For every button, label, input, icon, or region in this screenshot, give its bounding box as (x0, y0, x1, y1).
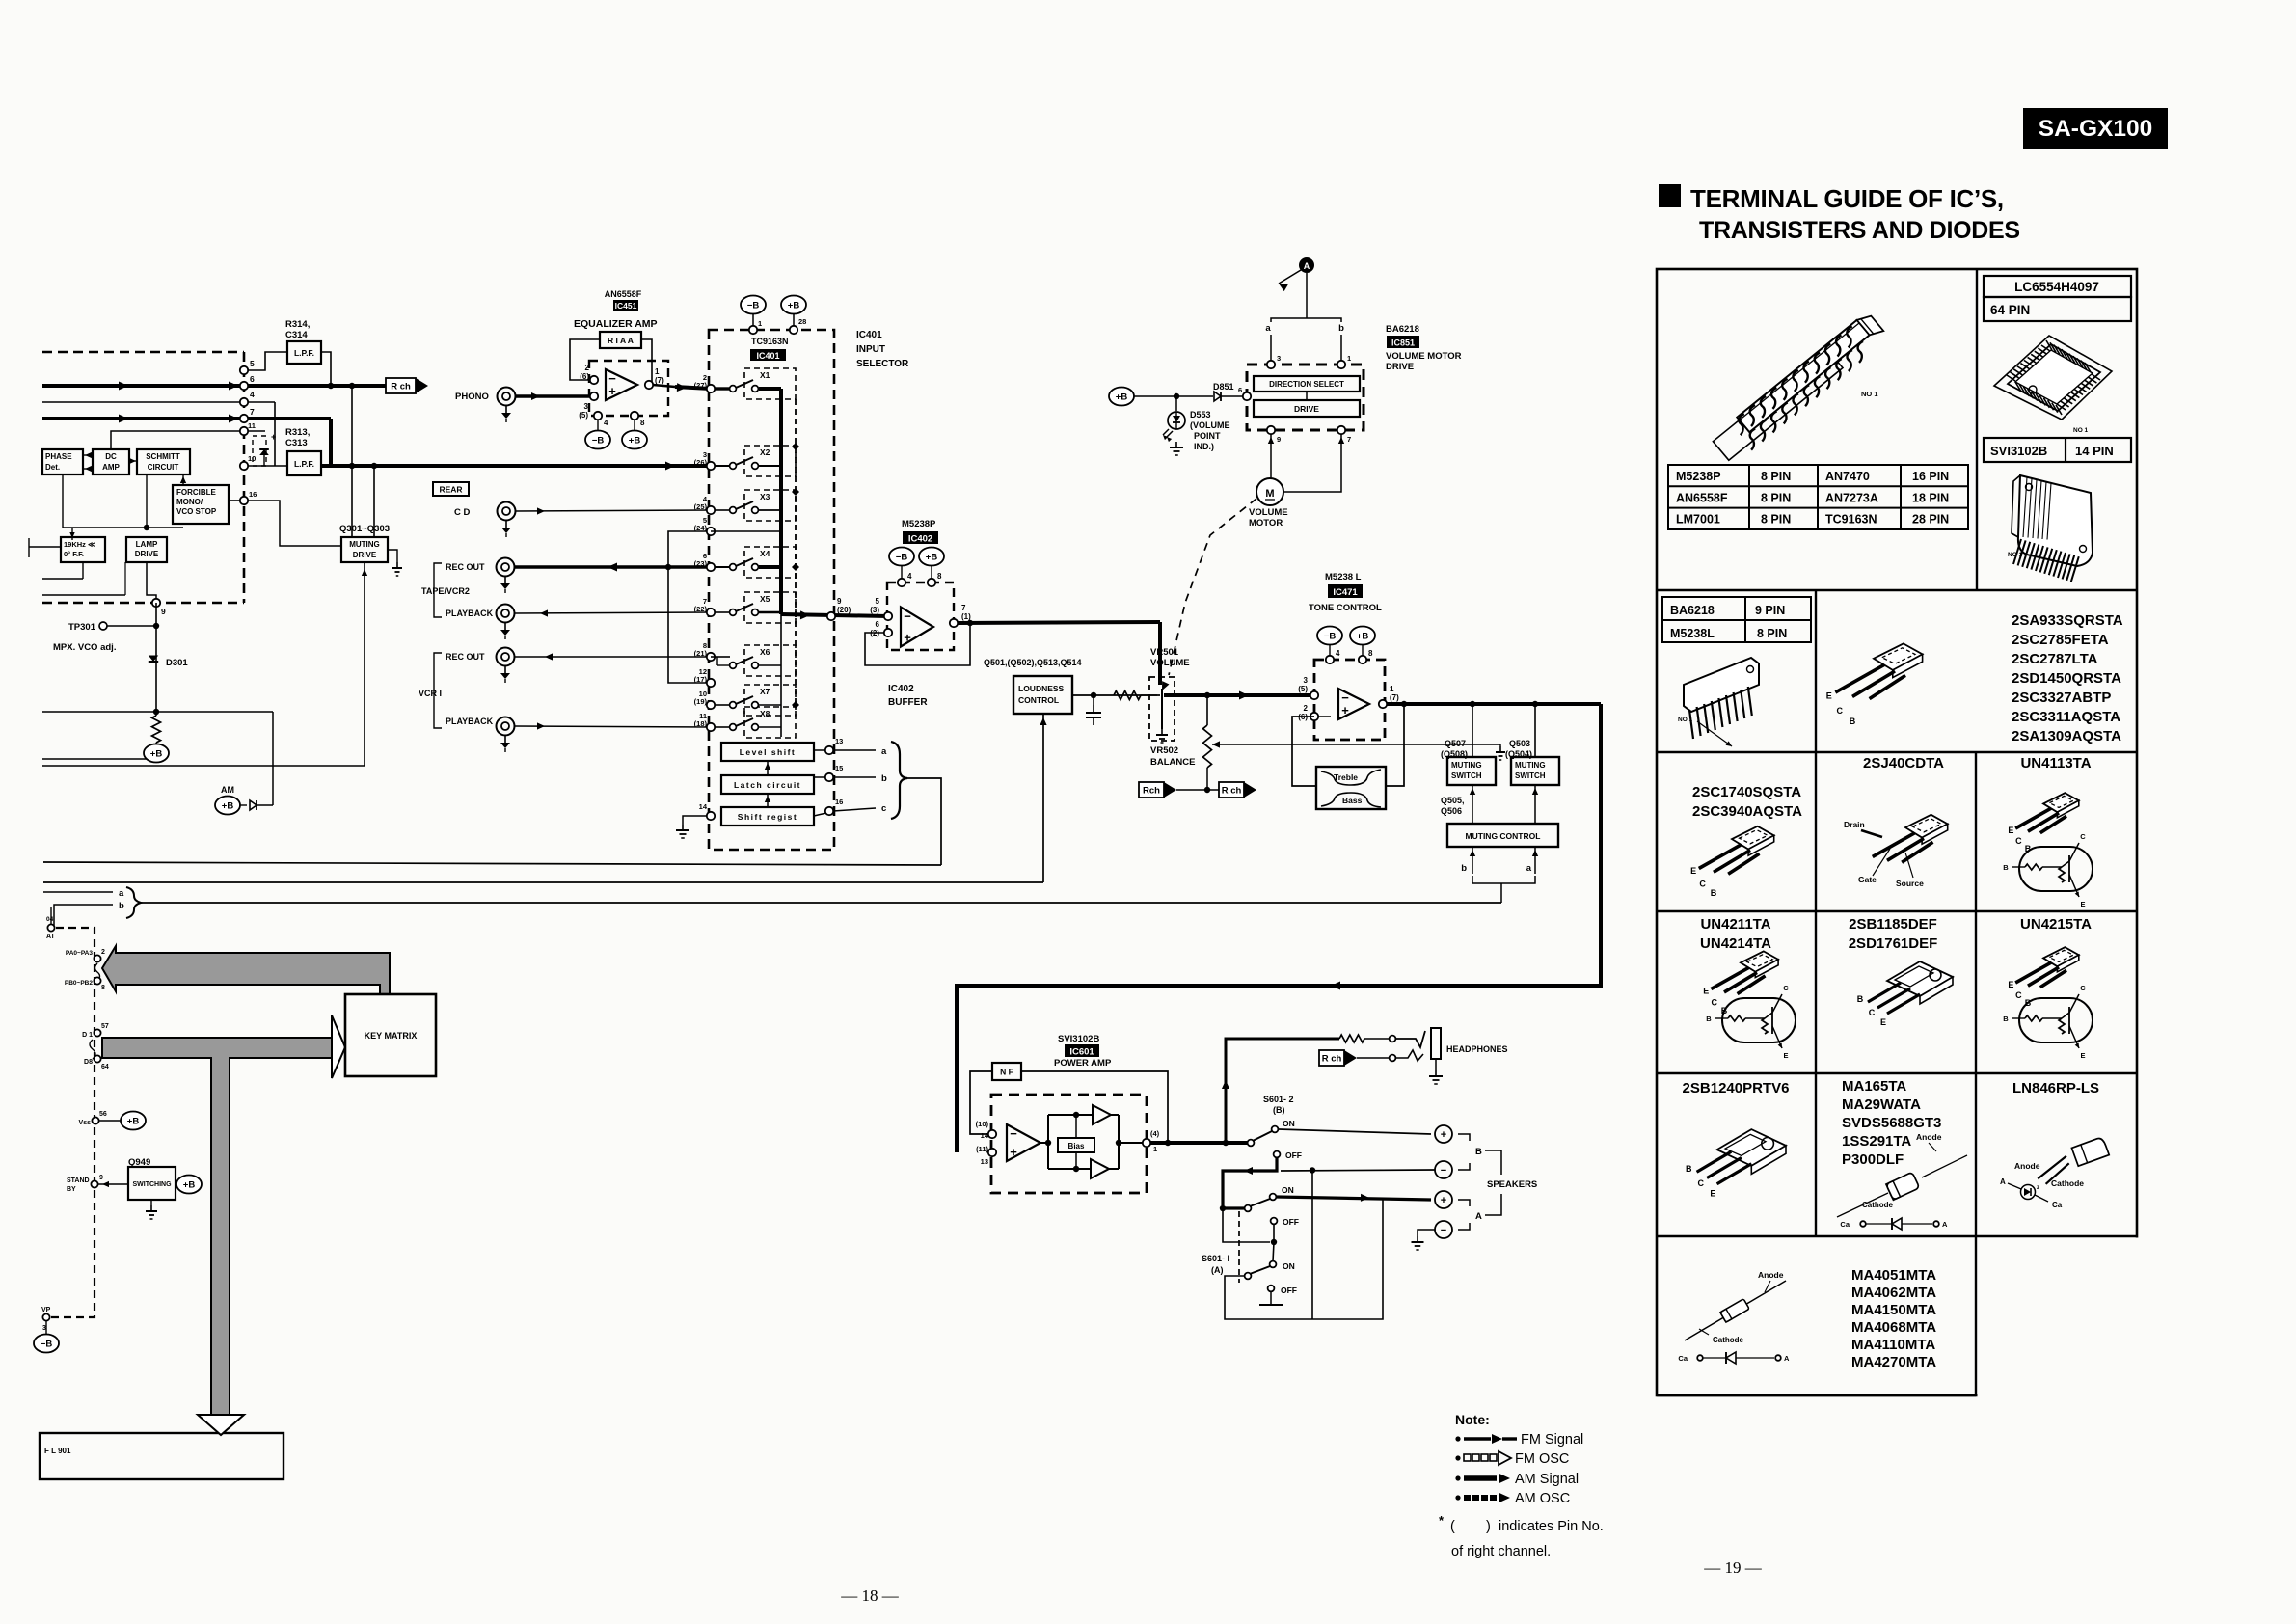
wires under phase det (63, 474, 183, 528)
svg-text:Bass: Bass (1342, 796, 1363, 805)
contact hp tip (1390, 1036, 1396, 1042)
svg-text:C314: C314 (285, 330, 308, 340)
svg-text:6: 6 (250, 374, 255, 384)
svg-text:AT: AT (46, 934, 56, 940)
wire VP to -B (45, 1321, 47, 1335)
resistor R vco (155, 712, 157, 716)
grid col line 2049 (1975, 752, 1977, 1236)
IC402 dashed box (887, 582, 954, 650)
ground D553 (1175, 442, 1177, 447)
svg-text:IC851: IC851 (1391, 338, 1415, 348)
block KEY MATRIX (345, 994, 436, 1076)
svg-text:(: ( (1450, 1519, 1455, 1534)
svg-text:E: E (1703, 987, 1709, 996)
svg-text:2: 2 (585, 364, 590, 372)
svg-text:AN7470: AN7470 (1825, 470, 1870, 483)
flag Rch headphones (1319, 1050, 1344, 1066)
headphone jack (1396, 1031, 1425, 1047)
svg-text:C: C (1837, 706, 1844, 716)
transistor package 2SB1240 (1717, 1129, 1786, 1166)
svg-text:13: 13 (981, 1157, 988, 1166)
svg-text:D851: D851 (1213, 382, 1234, 392)
svg-text:LOUDNESS: LOUDNESS (1018, 684, 1065, 693)
ba6218 pin table (1662, 597, 1811, 642)
svg-text:(3): (3) (870, 606, 879, 614)
grey arrow keys to D (102, 1038, 332, 1417)
svg-text:Source: Source (1896, 879, 1924, 888)
wire rch to hp ring (1357, 1057, 1389, 1059)
grid col right below 1447 erase (1978, 1238, 2141, 1399)
wire balance wiper to ground (1212, 744, 1408, 745)
svg-text:KEY MATRIX: KEY MATRIX (365, 1031, 418, 1041)
svg-text:10: 10 (248, 454, 256, 463)
varactor diode D302 (253, 436, 266, 466)
svg-text:LAMP: LAMP (136, 540, 158, 549)
ground pin14 (683, 816, 707, 825)
wire pin7 to motor (1283, 434, 1341, 492)
power +B vss (121, 1112, 146, 1130)
svg-text:1: 1 (758, 319, 762, 328)
wires muting control to switches (1472, 785, 1473, 824)
svg-text:+B: +B (926, 553, 938, 563)
block FL901 (40, 1433, 284, 1479)
svg-text:MOTOR: MOTOR (1249, 518, 1283, 528)
svg-text:(6): (6) (580, 372, 589, 381)
bracket speakers A (1458, 1200, 1470, 1206)
grid col line 1883 (1815, 590, 1817, 1236)
arrow from A (1279, 270, 1301, 284)
svg-text:Anode: Anode (1916, 1132, 1942, 1142)
svg-text:8: 8 (640, 419, 645, 427)
svg-text:15: 15 (835, 764, 843, 772)
wire s601-1 box (1225, 1200, 1383, 1319)
node pin10 14 (988, 1130, 996, 1138)
svg-text:AM: AM (221, 785, 234, 795)
svg-text:TAPE/VCR2: TAPE/VCR2 (421, 586, 470, 596)
svg-text:+: + (1341, 703, 1349, 717)
block MUTING SWITCH 1 (1447, 757, 1496, 785)
svg-text:indicates Pin No.: indicates Pin No. (1499, 1519, 1604, 1534)
ground muting drive (388, 550, 397, 562)
connector A circle (1299, 257, 1314, 273)
svg-text:D553: D553 (1190, 410, 1211, 420)
svg-text:L.P.F.: L.P.F. (294, 459, 314, 469)
IC401 dashed box (709, 330, 834, 850)
svg-text:7: 7 (961, 604, 966, 612)
power +B motor (1109, 388, 1134, 406)
wire NF left loop (970, 1071, 992, 1134)
selector output bus (thick) (779, 389, 783, 614)
svg-text:+: + (1441, 1195, 1446, 1206)
svg-text:4: 4 (250, 390, 255, 399)
wire LPF R314 output to Rch line (321, 352, 331, 386)
wire lamp drive to node 9 (147, 562, 156, 603)
wire muting drive to bottom rail (42, 562, 365, 766)
svg-text:04: 04 (46, 916, 54, 923)
svg-text:R ch: R ch (391, 382, 411, 392)
svg-text:HEADPHONES: HEADPHONES (1446, 1044, 1508, 1054)
ground switching (150, 1200, 152, 1205)
switch X3 (730, 507, 737, 514)
wire playback tape (515, 612, 711, 613)
svg-text:SVI3102B: SVI3102B (1990, 444, 2047, 458)
svg-text:(20): (20) (837, 606, 851, 614)
svg-text:Ca: Ca (2052, 1201, 2063, 1209)
node pin 10 (240, 462, 248, 470)
op-amp IC451 (606, 369, 637, 400)
speaker terminal B minus (1435, 1161, 1452, 1178)
block LOUDNESS CONTROL (1013, 676, 1072, 714)
svg-text:N F: N F (1000, 1068, 1013, 1077)
transistor package UN4215 (2043, 947, 2079, 966)
svg-text:X4: X4 (760, 549, 770, 558)
node pin16 out (825, 807, 833, 815)
svg-text:Level shift: Level shift (740, 747, 797, 757)
svg-text:+B: +B (222, 801, 234, 812)
svg-text:— 19 —: — 19 — (1703, 1558, 1763, 1577)
svg-text:MA4270MTA: MA4270MTA (1851, 1354, 1936, 1370)
svg-text:+: + (1010, 1145, 1017, 1159)
svg-text:(1): (1) (961, 612, 971, 621)
block Bias (1058, 1138, 1094, 1152)
svg-text:(4): (4) (1150, 1129, 1160, 1138)
node pin 16 (240, 497, 248, 504)
bracket speakers outer (1497, 1150, 1501, 1175)
wire FM signal line pin 6 (thick) (42, 384, 386, 388)
svg-text:UN4211TA: UN4211TA (1700, 916, 1770, 933)
node pin1 top (749, 326, 757, 334)
wire NF right loop (1021, 1071, 1168, 1143)
block LAMP DRIVE (126, 537, 167, 562)
switch A pole (1220, 1205, 1226, 1211)
svg-text:MUTING CONTROL: MUTING CONTROL (1466, 831, 1541, 841)
svg-text:b: b (881, 773, 887, 784)
flag Rch balance right (1219, 782, 1244, 798)
svg-text:−B: −B (896, 553, 908, 563)
svg-text:VR502: VR502 (1150, 745, 1178, 756)
node PB0-PB2 (94, 977, 100, 984)
svg-text:MA4110MTA: MA4110MTA (1851, 1337, 1935, 1353)
svg-text:(27): (27) (694, 381, 708, 390)
svg-text:FM OSC: FM OSC (1515, 1451, 1569, 1467)
sip9 package drawing (1684, 658, 1759, 712)
svg-text:A: A (1784, 1354, 1790, 1363)
ic402 feedback wire (865, 623, 970, 665)
svg-text:E: E (1690, 866, 1696, 876)
LPF R313 C313 box (287, 451, 321, 475)
svg-text:AM OSC: AM OSC (1515, 1491, 1570, 1506)
block Latch circuit (721, 775, 814, 794)
node pin 9 (152, 599, 160, 607)
svg-text:VOLUME: VOLUME (1150, 658, 1190, 668)
svg-text:IC401: IC401 (756, 351, 779, 361)
svg-text:VCO STOP: VCO STOP (176, 507, 217, 516)
svi3102b sip package drawing (2018, 475, 2093, 566)
svg-text:+B: +B (1357, 632, 1369, 642)
svg-text:−: − (1010, 1126, 1017, 1141)
svg-text:TRANSISTERS AND DIODES: TRANSISTERS AND DIODES (1699, 217, 2020, 244)
wire DC AMP to SCHMITT (129, 460, 137, 462)
block MUTING SWITCH 2 (1511, 757, 1559, 785)
svg-text:8 PIN: 8 PIN (1761, 513, 1791, 527)
svg-text:IC601: IC601 (1069, 1047, 1094, 1058)
svg-text:Rch: Rch (1143, 786, 1160, 797)
svg-text:BA6218: BA6218 (1386, 324, 1419, 335)
svg-text:Shift regist: Shift regist (738, 812, 797, 822)
node pin6 ic402 (884, 629, 892, 636)
wire pin 4 (42, 401, 275, 403)
svg-text:Anode: Anode (2014, 1161, 2040, 1171)
jack PLAYBACK vcr1 (497, 717, 515, 736)
svg-text:2SB1185DEF: 2SB1185DEF (1849, 916, 1937, 933)
svg-text:MPX. VCO adj.: MPX. VCO adj. (53, 642, 116, 653)
svg-text:b: b (1461, 863, 1467, 874)
switch X4 (730, 564, 737, 571)
svg-text:E: E (1783, 1051, 1788, 1060)
svg-text:X8: X8 (760, 709, 770, 718)
svg-text:b: b (1338, 323, 1344, 334)
svg-text:+B: +B (1116, 392, 1128, 403)
wire SCHMITT to FORCIBLE (182, 474, 184, 485)
svg-text:c: c (881, 803, 886, 814)
svg-text:MUTING: MUTING (349, 540, 380, 549)
node STANDBY (91, 1180, 97, 1187)
svg-text:STAND: STAND (67, 1177, 90, 1184)
jack REC OUT tape (497, 558, 515, 577)
svg-text:): ) (1486, 1519, 1491, 1534)
svg-text:C: C (2080, 984, 2086, 992)
equivalent circuit UN4211 (1722, 998, 1796, 1042)
node pin3 ic851 (1267, 361, 1275, 368)
svg-text:Cathode: Cathode (1713, 1336, 1744, 1344)
svg-text:(5): (5) (579, 411, 588, 420)
block NF (992, 1063, 1021, 1080)
wire AT to b line (50, 907, 52, 924)
svg-text:B: B (2003, 863, 2009, 872)
wire tone fb left (1292, 717, 1316, 786)
svg-text:+B: +B (127, 1117, 140, 1127)
svg-text:2SC2787LTA: 2SC2787LTA (2012, 651, 2098, 667)
svg-text:Q301~Q303: Q301~Q303 (339, 524, 390, 534)
wires level shift outputs (814, 749, 826, 751)
wire AM feed vertical (272, 712, 274, 805)
svg-text:z: z (2037, 1185, 2039, 1191)
contact S601-1 off lower (1268, 1286, 1275, 1292)
node pin2 (590, 376, 598, 384)
svg-text:TERMINAL GUIDE OF IC’S,: TERMINAL GUIDE OF IC’S, (1690, 184, 2004, 213)
svg-text:S601- 2: S601- 2 (1263, 1095, 1294, 1104)
node Vss (92, 1117, 98, 1123)
wire rch link (1176, 789, 1219, 791)
wire balance branch (1206, 695, 1208, 725)
svg-text:Anode: Anode (1758, 1270, 1784, 1280)
svg-text:BALANCE: BALANCE (1150, 757, 1195, 768)
svg-text:+B: +B (150, 749, 163, 760)
svg-text:ON: ON (1283, 1261, 1295, 1271)
svg-text:E: E (1880, 1017, 1886, 1027)
block PHASE Det (42, 449, 83, 474)
bus line ab to muting (139, 902, 1501, 904)
resistor volume feed (1114, 691, 1141, 700)
svg-text:−B: −B (41, 1340, 53, 1350)
bus line loudness control (43, 881, 1043, 883)
svg-text:LN846RP-LS: LN846RP-LS (2012, 1080, 2099, 1096)
IC601 dashed box (991, 1095, 1147, 1193)
node pin28 top (790, 326, 797, 334)
svg-text:−: − (904, 609, 911, 624)
node pin15 (825, 773, 833, 781)
svg-text:2SC3940AQSTA: 2SC3940AQSTA (1692, 803, 1802, 820)
svg-text:b: b (119, 901, 124, 911)
svg-text:Q507: Q507 (1445, 739, 1466, 748)
svg-text:56: 56 (99, 1111, 107, 1118)
legend AM Signal (1455, 1475, 1460, 1480)
grid row line 780 (1657, 751, 2137, 753)
dashed wire motor to VR501 (1169, 499, 1256, 675)
svg-text:Q501,(Q502),Q513,Q514: Q501,(Q502),Q513,Q514 (984, 658, 1082, 667)
svg-text:DRIVE: DRIVE (1386, 362, 1414, 372)
legend FM OSC (1455, 1455, 1460, 1460)
svg-text:IC471: IC471 (1333, 587, 1358, 598)
svg-text:REAR: REAR (439, 485, 462, 495)
node pin 11 (240, 427, 248, 435)
svg-text:A: A (1304, 261, 1310, 271)
svg-text:TC9163N: TC9163N (751, 337, 789, 346)
buffer triangle upper (1093, 1105, 1111, 1124)
svg-text:ON: ON (1282, 1185, 1294, 1195)
svg-text:MONO/: MONO/ (176, 498, 203, 506)
svg-text:C D: C D (454, 507, 471, 518)
svg-text:11: 11 (248, 421, 256, 430)
svg-text:R ch: R ch (1322, 1054, 1342, 1065)
svg-text:Note:: Note: (1455, 1412, 1490, 1427)
flag Rch balance left (1139, 782, 1164, 798)
contact A ON (1270, 1194, 1277, 1201)
switch X8 (730, 724, 737, 731)
svg-text:M5238L: M5238L (1670, 627, 1715, 640)
wire vco chain vertical (155, 603, 157, 710)
wire tone out down to amp rail (thick) (957, 704, 1601, 1152)
power +B vco (144, 744, 169, 763)
svg-text:A: A (2000, 1177, 2006, 1186)
svg-text:TP301: TP301 (68, 622, 96, 633)
svg-text:E: E (2080, 1051, 2085, 1060)
VR501 volume pot dashed box (1149, 677, 1175, 741)
grid col line 2050 top (1976, 269, 1978, 590)
LPF R314 C314 box (287, 341, 321, 364)
wire direction to drive (1306, 392, 1308, 400)
svg-text:IC402: IC402 (888, 684, 914, 694)
jack PLAYBACK tape (497, 605, 515, 623)
node pin9 ic851 (1267, 426, 1275, 434)
wire horizontal y738 (42, 711, 273, 713)
node pin8 ic402 (928, 579, 935, 586)
svg-text:2SC2785FETA: 2SC2785FETA (2012, 632, 2109, 648)
svg-text:FORCIBLE: FORCIBLE (176, 488, 217, 497)
power -B ic402 (889, 548, 914, 566)
svg-text:1: 1 (655, 367, 660, 376)
switch S601-2 upper pole (1248, 1140, 1255, 1147)
svg-text:REC OUT: REC OUT (446, 562, 485, 572)
header box SVI3102B 14 PIN (1984, 438, 2131, 462)
svg-text:Ca: Ca (1678, 1354, 1688, 1363)
grid row line 945 (1657, 910, 2137, 912)
svg-text:2SD1450QRSTA: 2SD1450QRSTA (2012, 670, 2121, 687)
node pin7 ic851 (1337, 426, 1345, 434)
svg-text:R314,: R314, (285, 319, 310, 330)
svg-text:MA4068MTA: MA4068MTA (1851, 1319, 1936, 1336)
svg-text:2SC3311AQSTA: 2SC3311AQSTA (2012, 709, 2120, 725)
header box 64 PIN (1984, 297, 2131, 321)
capacitor loudness (1093, 695, 1094, 705)
svg-text:SVDS5688GT3: SVDS5688GT3 (1842, 1115, 1941, 1131)
transistor package row B (1874, 643, 1923, 670)
svg-text:4: 4 (907, 572, 912, 581)
svg-text:A: A (1475, 1211, 1482, 1222)
transistor package 2SC1740 (1732, 826, 1774, 850)
svg-text:Vss: Vss (79, 1120, 92, 1126)
wire X6 node to switch (711, 656, 715, 658)
wire tone out (thick) (1387, 702, 1601, 706)
svg-text:NO 1: NO 1 (2073, 427, 2089, 434)
block DC AMP (93, 449, 129, 474)
header box LC6554H4097 (1984, 276, 2131, 297)
svg-text:IC401: IC401 (856, 330, 882, 340)
svg-text:D 1: D 1 (82, 1032, 93, 1039)
svg-text:(26): (26) (694, 458, 708, 467)
svg-text:MUTING: MUTING (1515, 761, 1546, 770)
block SCHMITT CIRCUIT (137, 449, 190, 474)
bracket TAPE VCR2 (434, 563, 442, 617)
svg-text:Ca: Ca (1840, 1220, 1850, 1229)
jack CD (498, 502, 516, 521)
svg-text:19KHz ≪: 19KHz ≪ (64, 540, 95, 549)
wire pin5 to LPF R314 (244, 352, 287, 370)
svg-text:UN4214TA: UN4214TA (1700, 935, 1771, 952)
wires between latch blocks (767, 761, 769, 775)
svg-text:+: + (271, 432, 276, 442)
speaker terminal B plus (1435, 1125, 1452, 1143)
wire playback vcr1 (515, 726, 711, 727)
svg-text:D301: D301 (166, 658, 188, 668)
svg-text:5: 5 (876, 597, 880, 606)
node AT (47, 924, 54, 931)
svg-text:B: B (1706, 1015, 1712, 1023)
diode AM (240, 804, 247, 806)
wire A to ab bracket (1306, 273, 1308, 314)
wire volume to tone (thick) (1164, 693, 1310, 697)
bracket speakers B (1458, 1134, 1470, 1141)
svg-text:DRIVE: DRIVE (353, 551, 377, 559)
svg-text:SVI3102B: SVI3102B (1058, 1034, 1099, 1044)
node pin13 (825, 746, 833, 754)
block FORCIBLE MONO VCO STOP (173, 485, 229, 524)
grey arrow down to FL901 head (198, 1415, 244, 1435)
svg-text:(B): (B) (1273, 1105, 1285, 1115)
ground balance (1499, 746, 1501, 752)
svg-text:AMP: AMP (102, 463, 120, 472)
power +B ic401 (781, 296, 806, 314)
svg-text:Q505,: Q505, (1441, 796, 1465, 805)
svg-text:(23): (23) (694, 559, 708, 568)
svg-text:9 PIN: 9 PIN (1755, 604, 1785, 617)
svg-text:C: C (1783, 984, 1789, 992)
wire loudness out (1072, 694, 1160, 696)
VR502 balance pot (1203, 725, 1212, 768)
tuner MPX IC dashed outline (42, 351, 244, 354)
switch X5 (730, 609, 737, 616)
power +B eq (622, 431, 647, 449)
